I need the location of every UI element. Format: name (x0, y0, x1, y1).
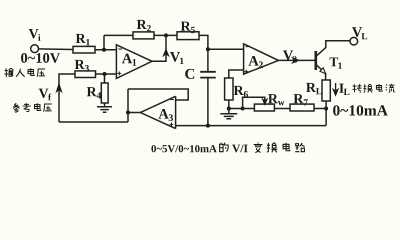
wire A3 output to node (128, 112, 140, 114)
A3 plus (170, 123, 174, 127)
wire A2 output to T1 base (279, 59, 315, 61)
terminal Vi (31, 45, 39, 53)
terminal VL (350, 37, 358, 45)
wire R3 left to Vf vertical (59, 74, 75, 122)
wire A3 + input to rail (176, 125, 326, 127)
wire mid rail (229, 108, 255, 110)
label A2 (248, 56, 262, 68)
label Vf (39, 89, 52, 101)
wire R7 to emitter node (314, 108, 326, 110)
A2 plus (244, 70, 248, 74)
op-amp A1 (116, 45, 152, 79)
wire R6 bottom to rail node (228, 100, 230, 109)
resistor R6 (225, 78, 233, 100)
wire bottom Vf loop (59, 121, 128, 123)
wire R5 to corner and down to A2 input node (199, 35, 208, 49)
arrow Vf (up, on left vertical) (57, 84, 62, 91)
junction node R3/R4 (103, 72, 107, 76)
junction node A2 inverting (206, 47, 210, 51)
op-amp input polarity marks (117, 47, 249, 127)
label Rw (268, 94, 285, 105)
wire RL bottom to node (325, 101, 327, 126)
capacitor C plates (200, 72, 216, 78)
wire Vi to R1 (39, 48, 74, 51)
transistor T1 collector (317, 41, 350, 56)
A1 minus (118, 48, 122, 50)
label A1 (122, 54, 136, 66)
arrow IL (down, beside RL) (333, 83, 337, 95)
transistor T1 emitter (317, 65, 326, 80)
label C (185, 69, 194, 79)
op-amp A2 (244, 44, 279, 74)
transistor T1 base bar (314, 51, 317, 70)
arrow Rw wiper head (263, 100, 267, 105)
wire node down to capacitor top (207, 49, 209, 71)
label IL (339, 84, 349, 95)
resistor R1 (73, 46, 95, 53)
wire node R3/R4 down (104, 74, 106, 83)
label R4 (87, 87, 101, 98)
arrow V1 (up, on output vertical) (164, 50, 169, 56)
ground (R4) (97, 107, 112, 112)
junction node RL/R7 (324, 107, 328, 111)
A1 plus (117, 72, 121, 76)
resistor R7 (290, 104, 314, 111)
resistor R4 (101, 83, 108, 103)
caption latin V/I (232, 145, 247, 153)
label 输入电压 (4, 68, 45, 77)
wire R2 to node V1 top (154, 34, 177, 36)
label VL (352, 27, 367, 39)
junction node V1 (164, 33, 168, 37)
label R2 (137, 20, 151, 31)
label RL (306, 83, 322, 94)
caption 的 (220, 143, 229, 152)
wire R4 to ground (104, 103, 106, 107)
resistor R5 (177, 32, 199, 40)
caption latin 0~5V/0~10mA (151, 145, 216, 152)
wire R3 to A1 noninverting input (96, 73, 117, 75)
label 0~10V (21, 53, 60, 63)
wire Rw to R7 (274, 108, 290, 110)
resistor RL (322, 80, 330, 101)
A3 minus (170, 99, 174, 101)
junction node wiper (241, 107, 245, 111)
wire node to A2 inverting input (208, 48, 244, 50)
label Vi (29, 29, 41, 41)
junction node R1/R2 (102, 48, 106, 52)
junction node A3 output (126, 111, 130, 115)
resistor R3 (75, 71, 96, 78)
caption 变换电路 (254, 142, 305, 152)
label A3 (158, 109, 173, 121)
wiper of Rw (243, 97, 265, 108)
A2 minus (246, 46, 250, 48)
wire A1 output (152, 35, 166, 61)
ground (R6) (220, 109, 237, 119)
wire R1 to A1 inverting input (95, 49, 116, 51)
label 转换电流 (352, 84, 394, 93)
junction node R6/ground (227, 107, 231, 111)
label T1 (330, 57, 342, 68)
label R1 (76, 34, 90, 45)
label R3 (75, 60, 89, 72)
label R5 (181, 22, 195, 34)
wire A2 noninverting from R6 (229, 70, 244, 78)
label R6 (234, 86, 248, 98)
transistor T1 emitter arrowhead (open) (320, 68, 326, 74)
resistor R2 (133, 32, 154, 39)
wire A3 output vertical (127, 89, 129, 122)
wire node to R2 (vertical) (103, 35, 105, 49)
arrow V2 (right, on base wire) (293, 58, 299, 63)
potentiometer Rw (254, 104, 274, 111)
label V1 (170, 52, 184, 64)
label R7 (294, 94, 308, 105)
op-amp A3 (140, 96, 175, 128)
label 0~10mA (333, 105, 388, 115)
label V2 (283, 51, 297, 63)
junction node rail/capacitor (206, 124, 210, 128)
label 参考电压 (13, 103, 52, 112)
wire capacitor bottom to rail (207, 78, 209, 125)
wire A3 feedback loop (128, 89, 188, 100)
wire R2 row (104, 34, 133, 36)
